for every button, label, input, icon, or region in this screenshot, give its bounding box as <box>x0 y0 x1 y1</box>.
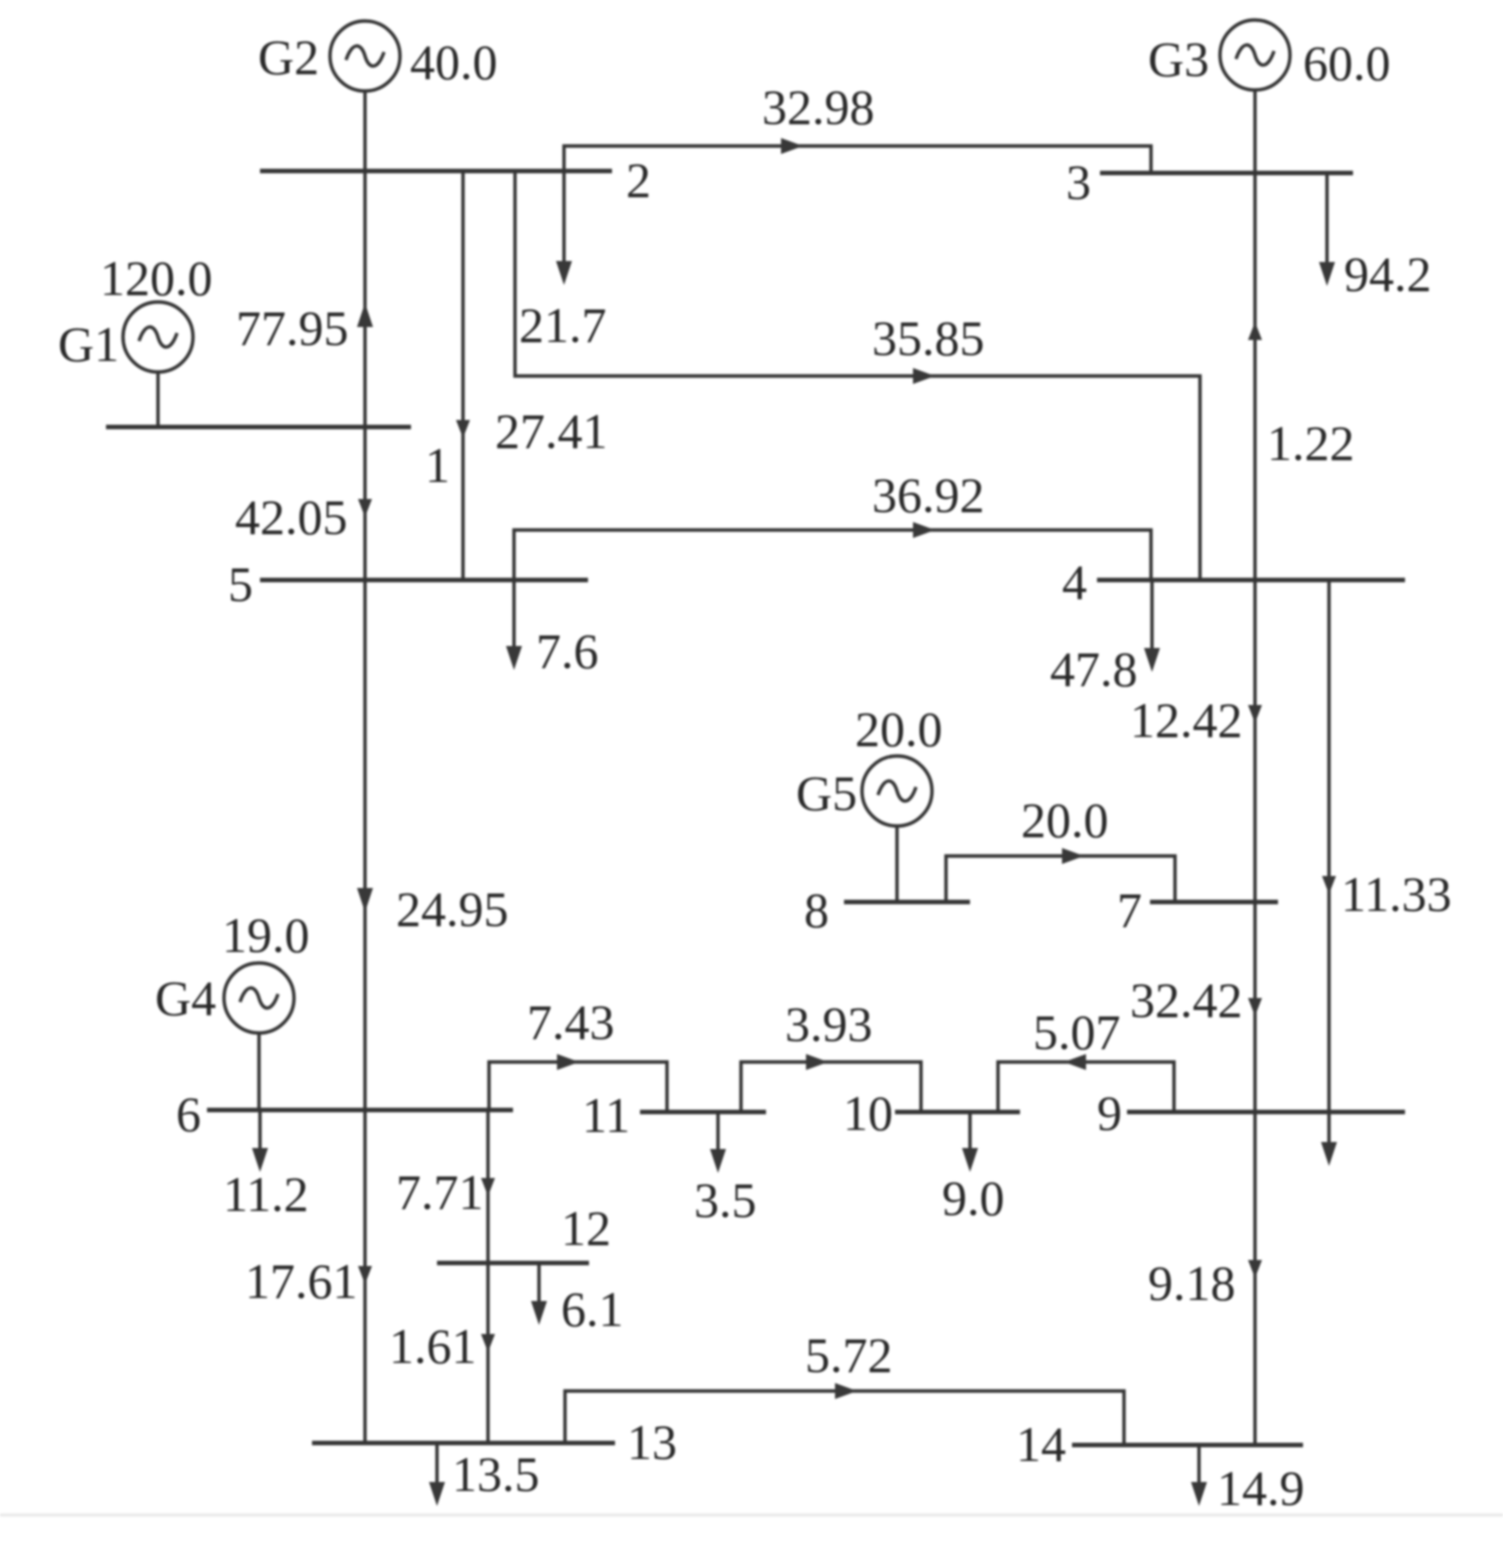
generator G5 stem wire <box>895 826 898 902</box>
arrowhead 36.92 right <box>913 522 935 538</box>
faint scan line bottom <box>0 1514 1503 1517</box>
bus 3 <box>1100 171 1353 175</box>
arrowhead load bus6 11.2 <box>252 1148 268 1172</box>
arrowhead 5.07 left <box>1064 1054 1086 1070</box>
svg-text:11: 11 <box>582 1087 630 1143</box>
arrowhead 11.33 down <box>1322 876 1336 894</box>
svg-text:36.92: 36.92 <box>872 467 985 523</box>
svg-text:9.18: 9.18 <box>1148 1255 1236 1311</box>
bus 8 <box>844 900 970 904</box>
wire bus6 to bus12 to bus13 <box>486 1110 489 1443</box>
arrowhead load bus9 down <box>1321 1142 1337 1166</box>
svg-text:27.41: 27.41 <box>495 403 608 459</box>
arrowhead load bus10 9.0 <box>962 1148 978 1172</box>
generator G4 stem wire <box>257 1033 260 1110</box>
arrowhead 7.43 right <box>557 1054 579 1070</box>
svg-text:60.0: 60.0 <box>1303 35 1391 91</box>
wire line 2-4 (35.85) <box>515 171 1200 580</box>
svg-text:1: 1 <box>425 437 450 493</box>
load wire bus 5 <box>512 580 515 648</box>
arrowhead load bus5 7.6 <box>506 646 522 670</box>
generator G5 circle <box>862 756 932 826</box>
svg-text:19.0: 19.0 <box>222 907 310 963</box>
svg-text:G5: G5 <box>796 765 857 821</box>
svg-text:77.95: 77.95 <box>236 300 349 356</box>
arrowhead load bus2 21.7 <box>556 261 572 285</box>
bus 2 <box>260 169 612 173</box>
arrowhead 17.61 down <box>358 1266 372 1284</box>
svg-text:G4: G4 <box>155 970 216 1026</box>
svg-text:12.42: 12.42 <box>1130 692 1243 748</box>
arrowhead 9.18 down <box>1248 1260 1262 1278</box>
wire line 11-10 (3.93) <box>741 1062 921 1112</box>
svg-text:1.22: 1.22 <box>1267 415 1355 471</box>
svg-text:7.43: 7.43 <box>527 994 615 1050</box>
svg-text:11.33: 11.33 <box>1341 866 1452 922</box>
wire bus2 to bus5 vertical <box>461 171 464 580</box>
arrowhead 24.95 down <box>357 888 373 912</box>
svg-text:6: 6 <box>176 1086 201 1142</box>
load wire bus 2 <box>562 171 565 263</box>
arrowhead 42.05 down <box>358 499 372 517</box>
svg-text:1.61: 1.61 <box>389 1318 477 1374</box>
svg-text:3: 3 <box>1066 154 1091 210</box>
svg-text:2: 2 <box>626 152 651 208</box>
arrowhead load bus13 13.5 <box>429 1482 445 1506</box>
arrowhead 1.61 down <box>481 1334 495 1352</box>
svg-text:5: 5 <box>228 556 253 612</box>
arrowhead 77.95 up <box>357 303 373 327</box>
arrowhead 27.41 down <box>456 420 470 438</box>
svg-text:5.07: 5.07 <box>1033 1004 1121 1060</box>
load wire bus 10 <box>968 1112 971 1150</box>
load wire bus 3 <box>1325 173 1328 264</box>
arrowhead 32.98 right <box>781 138 803 154</box>
svg-text:3.5: 3.5 <box>694 1172 757 1228</box>
svg-text:42.05: 42.05 <box>235 489 348 545</box>
arrowhead load bus3 94.2 <box>1319 262 1335 286</box>
load wire bus 14 <box>1197 1445 1200 1484</box>
svg-text:6.1: 6.1 <box>561 1281 624 1337</box>
svg-text:94.2: 94.2 <box>1344 246 1432 302</box>
generator G1 circle <box>123 302 193 372</box>
svg-text:13: 13 <box>627 1414 677 1470</box>
arrowhead 7.71 down <box>481 1178 495 1196</box>
svg-text:4: 4 <box>1062 554 1087 610</box>
arrowhead load bus14 14.9 <box>1191 1482 1207 1506</box>
arrowhead 35.85 right <box>913 368 935 384</box>
svg-text:13.5: 13.5 <box>452 1446 540 1502</box>
load wire bus 11 <box>716 1112 719 1151</box>
wire line 13-14 (5.72) <box>565 1391 1124 1445</box>
svg-text:11.2: 11.2 <box>223 1166 309 1222</box>
svg-text:3.93: 3.93 <box>785 996 873 1052</box>
wire bus3 to bus14 vertical <box>1253 173 1256 1445</box>
bus 12 <box>437 1261 589 1265</box>
wire line 2-3 (32.98) <box>564 146 1151 173</box>
svg-text:7.6: 7.6 <box>536 623 599 679</box>
svg-text:24.95: 24.95 <box>396 881 509 937</box>
arrowhead 12.42 down <box>1248 705 1262 723</box>
svg-text:32.42: 32.42 <box>1130 972 1243 1028</box>
bus 11 <box>640 1110 766 1114</box>
load wire bus 4 <box>1150 580 1153 650</box>
load wire bus 6 <box>258 1110 261 1150</box>
wire line 8-7 (20.0) <box>946 856 1175 902</box>
bus 14 <box>1072 1443 1303 1447</box>
load wire bus 12 <box>537 1263 540 1303</box>
svg-text:21.7: 21.7 <box>519 297 607 353</box>
bus 5 <box>260 578 588 582</box>
wire line 10-9 (5.07) <box>998 1062 1174 1112</box>
arrowhead 1.22 up <box>1248 322 1262 340</box>
svg-text:20.0: 20.0 <box>1021 792 1109 848</box>
svg-text:G1: G1 <box>58 316 119 372</box>
bus 4 <box>1097 578 1405 582</box>
wire bus4 to bus9 + load (11.33) <box>1327 580 1330 1144</box>
bus 10 <box>895 1110 1020 1114</box>
generator G2 circle <box>330 21 400 91</box>
svg-text:14.9: 14.9 <box>1217 1460 1305 1516</box>
generator G1 stem wire <box>156 372 159 427</box>
svg-text:G2: G2 <box>258 29 319 85</box>
svg-text:35.85: 35.85 <box>872 310 985 366</box>
svg-text:17.61: 17.61 <box>245 1253 358 1309</box>
generator G3 stem wire <box>1253 90 1256 173</box>
wire line 6-11 (7.43) <box>489 1062 667 1112</box>
svg-text:40.0: 40.0 <box>410 34 498 90</box>
bus 13 <box>312 1441 615 1445</box>
svg-text:7: 7 <box>1117 882 1142 938</box>
arrowhead 5.72 right <box>835 1383 857 1399</box>
bus 9 <box>1127 1110 1405 1114</box>
svg-text:7.71: 7.71 <box>396 1164 484 1220</box>
arrowhead 20.0 right <box>1062 848 1084 864</box>
generator G3 circle <box>1220 20 1290 90</box>
wire line 5-4 (36.92) <box>514 530 1151 580</box>
svg-text:47.8: 47.8 <box>1050 641 1138 697</box>
arrowhead load bus11 3.5 <box>710 1149 726 1173</box>
bus 6 <box>207 1108 513 1112</box>
svg-text:32.98: 32.98 <box>762 79 875 135</box>
svg-text:12: 12 <box>561 1200 611 1256</box>
svg-text:5.72: 5.72 <box>805 1327 893 1383</box>
svg-text:8: 8 <box>804 882 829 938</box>
generator G2 stem wire <box>363 91 366 171</box>
bus 7 <box>1150 900 1278 904</box>
generator G4 circle <box>224 963 294 1033</box>
svg-text:9: 9 <box>1097 1085 1122 1141</box>
svg-text:20.0: 20.0 <box>855 701 943 757</box>
svg-text:14: 14 <box>1016 1416 1066 1472</box>
load wire bus 13 <box>435 1443 438 1484</box>
arrowhead 3.93 right <box>806 1054 828 1070</box>
svg-text:10: 10 <box>843 1085 893 1141</box>
arrowhead load bus4 47.8 <box>1144 648 1160 672</box>
arrowhead load bus12 6.1 <box>531 1301 547 1325</box>
svg-text:G3: G3 <box>1148 31 1209 87</box>
wire bus2 to bus13 vertical <box>363 171 366 1443</box>
svg-text:9.0: 9.0 <box>942 1170 1005 1226</box>
svg-text:120.0: 120.0 <box>100 250 213 306</box>
arrowhead 32.42 down <box>1248 998 1262 1016</box>
bus 1 <box>106 425 411 429</box>
